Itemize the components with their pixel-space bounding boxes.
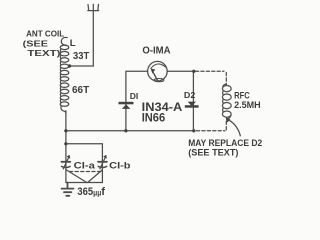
svg-text:66T: 66T <box>72 85 89 96</box>
svg-text:IN66: IN66 <box>142 111 166 125</box>
svg-text:TEXT): TEXT) <box>27 48 60 58</box>
svg-text:2.5MH: 2.5MH <box>234 100 261 110</box>
svg-text:DI: DI <box>130 91 139 101</box>
svg-text:O-IMA: O-IMA <box>142 46 170 57</box>
svg-text:(SEE: (SEE <box>23 38 49 48</box>
svg-text:(SEE TEXT): (SEE TEXT) <box>188 147 238 158</box>
svg-text:CI-b: CI-b <box>109 160 131 170</box>
svg-text:L: L <box>70 38 76 49</box>
svg-text:ANT COIL: ANT COIL <box>26 28 65 38</box>
svg-text:CI-a: CI-a <box>74 160 97 170</box>
svg-text:365μμf: 365μμf <box>77 186 105 198</box>
svg-text:RFC: RFC <box>234 90 250 100</box>
svg-text:D2: D2 <box>184 90 196 100</box>
svg-text:33T: 33T <box>73 51 89 62</box>
